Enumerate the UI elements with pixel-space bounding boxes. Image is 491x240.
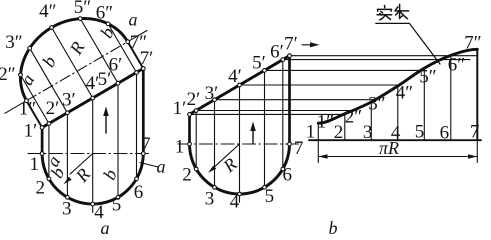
bottom semicircle (a) xyxy=(42,154,143,205)
node 4 (b) xyxy=(238,192,242,196)
svg-text:πR: πR xyxy=(379,138,399,158)
svg-text:3: 3 xyxy=(62,198,72,219)
svg-text:6: 6 xyxy=(134,182,144,203)
node 5' (a) xyxy=(116,81,120,85)
generator line 2 (b) xyxy=(195,111,197,170)
development baseline xyxy=(309,139,481,141)
svg-text:4″: 4″ xyxy=(39,1,56,22)
node 6'' (a) xyxy=(106,22,110,26)
generator line 7 (right contour b) xyxy=(288,56,291,144)
node 3'' (a) xyxy=(28,46,32,50)
perpendicular chord 2''-2' xyxy=(21,75,49,124)
center line (horizontal dash-dot) of base circle b xyxy=(178,143,301,145)
perpendicular chord 1''-1' xyxy=(27,101,43,128)
transfer line from 5' to development xyxy=(265,69,425,71)
node 2 (b) xyxy=(194,167,198,171)
node 4' (a) xyxy=(91,96,95,100)
node 7'' (a) xyxy=(126,40,130,44)
transfer line from 6' to development xyxy=(283,59,470,61)
node 7 (a) xyxy=(141,152,145,156)
rotation axis a-a (dash-dot through 1'' and 7'') xyxy=(5,101,27,114)
development vertical 4 xyxy=(397,86,399,140)
svg-text:1: 1 xyxy=(175,137,185,158)
generator line 4 (b) xyxy=(239,85,241,194)
svg-text:1′: 1′ xyxy=(24,121,38,142)
svg-text:3″: 3″ xyxy=(5,32,22,53)
svg-text:7′: 7′ xyxy=(140,48,154,69)
nodes on base circle (b) xyxy=(188,54,292,196)
node 1' (b) xyxy=(188,113,192,117)
development vertical 7 extension below xyxy=(476,140,478,162)
svg-text:a: a xyxy=(129,10,138,30)
generator line 4 (a) xyxy=(92,98,94,204)
node 2'' (a) xyxy=(19,73,23,77)
generator line 5 (b) xyxy=(264,70,266,187)
transfer line from 3' to development xyxy=(215,99,375,101)
generator line 6 (b) xyxy=(282,60,284,169)
node 3 (a) xyxy=(66,195,70,199)
svg-text:2′: 2′ xyxy=(187,89,201,110)
svg-text:5″: 5″ xyxy=(74,0,91,18)
development vertical 2 xyxy=(344,114,346,140)
svg-text:7′: 7′ xyxy=(284,34,298,55)
transfer line from 7' to development xyxy=(290,55,477,57)
transfer line from 1' to development xyxy=(190,113,344,115)
node 7 (b) xyxy=(288,142,292,146)
svg-text:5: 5 xyxy=(265,186,275,207)
perpendicular chord 3''-3' xyxy=(30,48,68,113)
generator line 1 (left contour a) xyxy=(41,128,44,154)
svg-text:7: 7 xyxy=(470,122,480,143)
svg-text:3: 3 xyxy=(205,188,215,209)
direction arrow right of 7' label xyxy=(302,44,317,46)
development vertical 6 xyxy=(450,55,452,140)
svg-text:2′: 2′ xyxy=(46,98,60,119)
svg-text:6″: 6″ xyxy=(96,3,113,24)
R dimension arrow (a) xyxy=(70,154,93,175)
svg-text:5: 5 xyxy=(415,122,425,143)
development vertical 5 xyxy=(423,68,425,140)
svg-text:4: 4 xyxy=(230,192,240,213)
node 6' (b) xyxy=(281,58,285,62)
node 5 (a) xyxy=(116,195,120,199)
node 3 (b) xyxy=(213,185,217,189)
node 6' (a) xyxy=(135,71,139,75)
true-shape half ellipse 1''..7'' (a) xyxy=(20,18,127,100)
svg-text:1″: 1″ xyxy=(19,99,36,120)
nodes on base circle (a) xyxy=(19,17,145,206)
svg-text:2: 2 xyxy=(36,178,46,199)
node 4 (a) xyxy=(91,202,95,206)
svg-text:b: b xyxy=(329,218,338,237)
leader line to label a (bottom right of circle a) xyxy=(140,163,158,168)
svg-text:6: 6 xyxy=(283,165,293,186)
svg-text:2: 2 xyxy=(182,165,192,186)
perpendicular chord 5''-5' xyxy=(80,19,118,84)
svg-text:6′: 6′ xyxy=(109,55,123,76)
svg-text:R: R xyxy=(219,154,241,177)
bottom semicircle (b) xyxy=(190,144,290,194)
generator line 2 (a) xyxy=(48,124,50,179)
generator line 5 (a) xyxy=(117,83,119,197)
svg-text:7: 7 xyxy=(294,138,304,159)
node 5 (b) xyxy=(263,185,267,189)
node 2' (a) xyxy=(47,122,51,126)
node 1'' (a) xyxy=(25,99,29,103)
perpendicular chord 4''-4' xyxy=(52,28,93,99)
svg-text:4″: 4″ xyxy=(396,83,413,104)
svg-text:5: 5 xyxy=(112,195,122,216)
svg-text:a: a xyxy=(157,157,166,177)
perpendicular chord 7''-7' xyxy=(128,42,144,69)
node 1 (a) xyxy=(40,152,44,156)
character 长 xyxy=(395,4,409,18)
up arrow (b) xyxy=(252,129,254,143)
node 4' (b) xyxy=(238,83,242,87)
svg-text:3′: 3′ xyxy=(62,90,76,111)
leader line of true-length label xyxy=(376,23,440,64)
node 1 (b) xyxy=(188,142,192,146)
svg-text:3: 3 xyxy=(363,122,373,143)
svg-text:6′: 6′ xyxy=(270,42,284,63)
transfer line from 4' to development xyxy=(240,84,399,86)
svg-text:R: R xyxy=(71,164,94,186)
slant section line 1'-7' (b) xyxy=(190,56,290,115)
svg-text:6: 6 xyxy=(440,122,450,143)
development vertical 3 xyxy=(370,102,372,140)
svg-text:7″: 7″ xyxy=(464,33,481,54)
vertical center line tick below circle (b) xyxy=(239,194,241,202)
center line (horizontal dash-dot) of base circle a xyxy=(28,153,152,155)
node 4'' (a) xyxy=(50,26,54,30)
node 1' (a) xyxy=(40,126,44,130)
svg-text:2″: 2″ xyxy=(0,64,16,85)
node 6 (b) xyxy=(281,167,285,171)
svg-text:1′: 1′ xyxy=(173,98,187,119)
development vertical 1 with extension below xyxy=(317,123,319,162)
generator line 3 (a) xyxy=(66,113,68,198)
up arrow (a) xyxy=(105,114,107,133)
svg-text:2″: 2″ xyxy=(345,107,362,128)
svg-text:5′: 5′ xyxy=(252,53,266,74)
node 2 (a) xyxy=(47,177,51,181)
svg-text:4′: 4′ xyxy=(228,66,242,87)
development curve 1''-7'' xyxy=(318,49,477,123)
node 5' (b) xyxy=(263,69,267,73)
development vertical 7 (seam, thick) xyxy=(476,49,478,140)
svg-text:5″: 5″ xyxy=(419,67,436,88)
generator line 6 (a) xyxy=(136,73,138,179)
transfer line from 2' to development xyxy=(196,110,350,112)
piR dimension line with arrows xyxy=(318,156,477,158)
node 3' (b) xyxy=(213,98,217,102)
generator line 7 (right contour a) xyxy=(142,69,145,154)
vertical center line tick below circle (a) xyxy=(92,204,94,212)
R dimension arrow (b) xyxy=(215,144,240,167)
node 2' (b) xyxy=(194,109,198,113)
slant section line 1'-7' (a) xyxy=(42,69,143,128)
svg-text:6″: 6″ xyxy=(448,55,465,76)
generator line 3 (b) xyxy=(214,100,216,188)
node 7' (a) xyxy=(141,67,145,71)
node 3' (a) xyxy=(66,111,70,115)
node 6 (a) xyxy=(135,177,139,181)
node 7' (b) xyxy=(288,54,292,58)
svg-text:3″: 3″ xyxy=(368,94,385,115)
svg-text:2: 2 xyxy=(334,122,344,143)
svg-text:1″: 1″ xyxy=(317,112,334,133)
svg-text:1: 1 xyxy=(306,122,316,143)
character 实 xyxy=(377,6,392,20)
svg-text:1: 1 xyxy=(30,154,40,175)
generator line 1 (left contour b) xyxy=(188,114,191,144)
svg-text:3′: 3′ xyxy=(205,83,219,104)
perpendicular chord 6''-6' xyxy=(108,24,136,73)
node 5'' (a) xyxy=(78,17,82,21)
true length label (hand-drawn CJK 实长) xyxy=(377,4,409,20)
svg-text:7: 7 xyxy=(141,134,151,155)
svg-text:a: a xyxy=(101,218,110,237)
